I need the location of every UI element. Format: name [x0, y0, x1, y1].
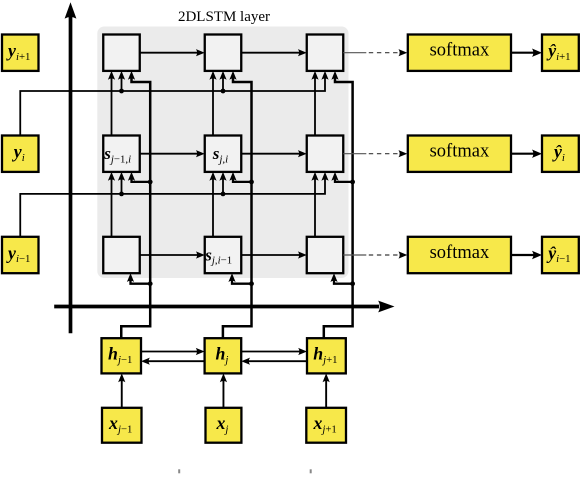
- svg-text:softmax: softmax: [430, 243, 490, 263]
- LSTM cell square col3 row3: [307, 237, 344, 273]
- wire y-line branch up into cell col2 row1: [219, 71, 226, 91]
- wire h branch column 3 into row-2 cell: [331, 172, 352, 182]
- wire y_i to row-1 cells: [20, 71, 328, 136]
- arrow x to h col3: [323, 373, 330, 407]
- wire s vertical col2 row3->row2: [209, 172, 216, 237]
- yhat box row3: [542, 237, 579, 273]
- svg-text:2DLSTM layer: 2DLSTM layer: [178, 9, 270, 25]
- wire s horizontal row1 col2->col3: [241, 49, 307, 56]
- junction dot h-line column 1 row 2: [148, 180, 153, 185]
- wire h branch column 2 into row-3 cell: [228, 273, 251, 284]
- arrow h1 to h2 (right): [141, 348, 205, 355]
- junction dot y-line col2 row1: [221, 89, 226, 94]
- cropped caption mark left: [178, 469, 180, 473]
- arrow x to h col1: [118, 373, 125, 407]
- wire s vertical col3 row3->row2: [311, 172, 318, 237]
- softmax box row3: [408, 237, 511, 273]
- y box row2: [2, 136, 39, 172]
- wire h_j column 2 main (h box up to row-1 cell): [223, 71, 252, 338]
- wire s horizontal row2 col1->col2: [140, 150, 205, 157]
- x box col1: [102, 408, 142, 443]
- dashed wire cell to softmax row2: [343, 150, 407, 157]
- y box row3: [2, 237, 39, 273]
- x box col3: [306, 408, 346, 443]
- wire s vertical col1 row2->row1: [108, 71, 115, 136]
- x box col2: [206, 408, 242, 443]
- wire y_{i-1} to row-2 cells: [20, 172, 328, 237]
- junction dot h-line column 2 row 2: [249, 180, 254, 185]
- arrow h3 to h2 (left): [241, 358, 307, 365]
- wire h branch column 2 into row-2 cell: [229, 172, 251, 182]
- softmax box row2: [408, 136, 511, 172]
- junction dot h-line column 3 row 3: [350, 281, 355, 286]
- wire s horizontal row2 col2->col3: [241, 150, 307, 157]
- svg-text:softmax: softmax: [430, 41, 490, 61]
- 2DLSTM layer background box: [97, 27, 348, 279]
- y box row1: [2, 35, 39, 71]
- wire y-line branch up into cell col1 row2: [118, 172, 125, 194]
- h box col3: [307, 338, 346, 373]
- arrow softmax to yhat row1: [511, 49, 542, 57]
- LSTM cell square col2 row2: [205, 136, 242, 172]
- dashed wire cell to softmax row1: [343, 49, 407, 56]
- vertical axis: [65, 2, 77, 333]
- cropped caption mark right: [310, 469, 312, 473]
- junction dot y-line col1 row1: [119, 89, 124, 94]
- wire h_j column 1 main (h box up to row-1 cell): [121, 71, 150, 338]
- h box col2: [205, 338, 242, 373]
- yhat box row2: [542, 136, 579, 172]
- junction dot h-line column 2 row 3: [249, 281, 254, 286]
- wire h_j column 3 main (h box up to row-1 cell): [324, 71, 353, 338]
- arrow h2 to h1 (left): [141, 358, 205, 365]
- wire y-line branch up into cell col1 row1: [118, 71, 125, 91]
- svg-text:softmax: softmax: [430, 142, 490, 162]
- LSTM cell square col1 row3: [103, 237, 140, 273]
- arrow softmax to yhat row3: [511, 251, 542, 259]
- arrow h2 to h3 (right): [241, 348, 307, 355]
- wire s horizontal row1 col1->col2: [140, 49, 205, 56]
- wire h branch column 1 into row-3 cell: [127, 273, 150, 284]
- wire s horizontal row3 col1->col2: [140, 251, 205, 258]
- h box col1: [102, 338, 142, 373]
- wire h branch column 3 into row-3 cell: [330, 273, 352, 284]
- LSTM cell square col2 row1: [205, 35, 242, 71]
- wire s horizontal row3 col2->col3: [241, 251, 307, 258]
- wire h branch column 1 into row-2 cell: [128, 172, 150, 182]
- softmax box row1: [408, 35, 511, 71]
- junction dot y-line col1 row2: [119, 192, 124, 197]
- wire s vertical col1 row3->row2: [108, 172, 115, 237]
- dashed wire cell to softmax row3: [343, 251, 407, 258]
- LSTM cell square col2 row3: [205, 237, 242, 273]
- LSTM cell square col1 row1: [103, 35, 140, 71]
- arrow softmax to yhat row2: [511, 150, 542, 158]
- junction dot y-line col2 row2: [221, 192, 226, 197]
- junction dot h-line column 1 row 3: [148, 281, 153, 286]
- yhat box row1: [542, 35, 579, 71]
- LSTM cell square col3 row1: [307, 35, 344, 71]
- wire s vertical col3 row2->row1: [311, 71, 318, 136]
- wire y-line branch up into cell col2 row2: [219, 172, 226, 194]
- wire s vertical col2 row2->row1: [209, 71, 216, 136]
- junction dot h-line column 3 row 2: [350, 180, 355, 185]
- arrow x to h col2: [220, 373, 227, 407]
- LSTM cell square col1 row2: [103, 136, 140, 172]
- horizontal axis: [54, 301, 394, 313]
- LSTM cell square col3 row2: [307, 136, 344, 172]
